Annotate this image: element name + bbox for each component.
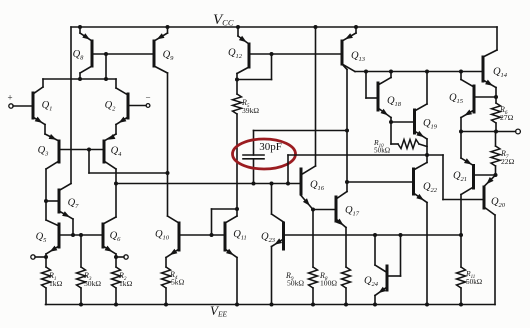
svg-text:+: + [7,93,12,103]
svg-text:5kΩ: 5kΩ [171,278,185,287]
svg-text:50kΩ: 50kΩ [466,278,482,286]
svg-text:27Ω: 27Ω [500,113,514,122]
svg-text:1kΩ: 1kΩ [49,279,63,288]
svg-text:1kΩ: 1kΩ [119,279,133,288]
svg-text:30pF: 30pF [259,141,282,153]
svg-text:50kΩ: 50kΩ [374,147,390,155]
svg-text:−: − [145,93,150,103]
svg-text:50kΩ: 50kΩ [84,279,101,288]
svg-text:50kΩ: 50kΩ [287,279,304,288]
svg-text:39kΩ: 39kΩ [242,106,259,115]
svg-text:22Ω: 22Ω [501,157,515,166]
svg-text:100Ω: 100Ω [320,279,337,288]
